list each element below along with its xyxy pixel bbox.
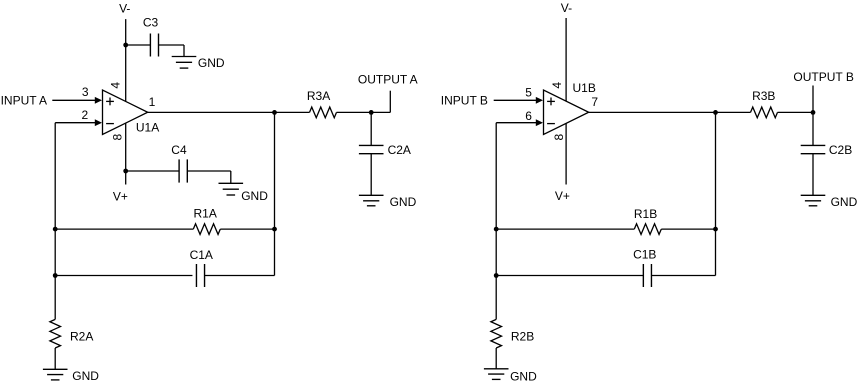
svg-text:8: 8 xyxy=(552,134,566,141)
svg-text:7: 7 xyxy=(591,95,598,109)
svg-text:C2A: C2A xyxy=(388,143,411,157)
svg-text:5: 5 xyxy=(525,86,532,100)
svg-text:C1A: C1A xyxy=(190,248,213,262)
svg-text:U1B: U1B xyxy=(573,81,596,95)
svg-text:V-: V- xyxy=(561,1,572,15)
svg-text:INPUT A: INPUT A xyxy=(1,93,47,107)
svg-text:C3: C3 xyxy=(143,16,159,30)
svg-text:GND: GND xyxy=(72,369,99,383)
svg-text:OUTPUT B: OUTPUT B xyxy=(793,70,853,84)
svg-text:GND: GND xyxy=(241,189,268,203)
svg-text:4: 4 xyxy=(550,82,564,89)
svg-text:R1B: R1B xyxy=(634,207,657,221)
svg-text:R3B: R3B xyxy=(752,89,775,103)
svg-text:INPUT B: INPUT B xyxy=(441,93,488,107)
svg-text:R1A: R1A xyxy=(194,207,217,221)
svg-text:1: 1 xyxy=(149,95,156,109)
svg-text:V+: V+ xyxy=(555,189,570,203)
svg-text:GND: GND xyxy=(198,56,225,70)
svg-text:4: 4 xyxy=(109,82,123,89)
svg-text:R3A: R3A xyxy=(307,89,330,103)
svg-text:R2B: R2B xyxy=(511,330,534,344)
svg-text:C4: C4 xyxy=(171,143,187,157)
svg-text:6: 6 xyxy=(525,109,532,123)
svg-text:GND: GND xyxy=(390,195,417,209)
svg-text:GND: GND xyxy=(831,195,857,209)
svg-text:C1B: C1B xyxy=(633,248,656,262)
svg-text:2: 2 xyxy=(82,108,89,122)
svg-text:OUTPUT A: OUTPUT A xyxy=(358,73,418,87)
svg-text:8: 8 xyxy=(111,134,125,141)
svg-text:V+: V+ xyxy=(113,189,128,203)
svg-text:C2B: C2B xyxy=(829,143,852,157)
svg-text:V-: V- xyxy=(119,2,130,16)
svg-text:R2A: R2A xyxy=(70,330,93,344)
svg-text:U1A: U1A xyxy=(136,120,159,134)
svg-text:3: 3 xyxy=(82,85,89,99)
svg-text:GND: GND xyxy=(510,369,537,383)
